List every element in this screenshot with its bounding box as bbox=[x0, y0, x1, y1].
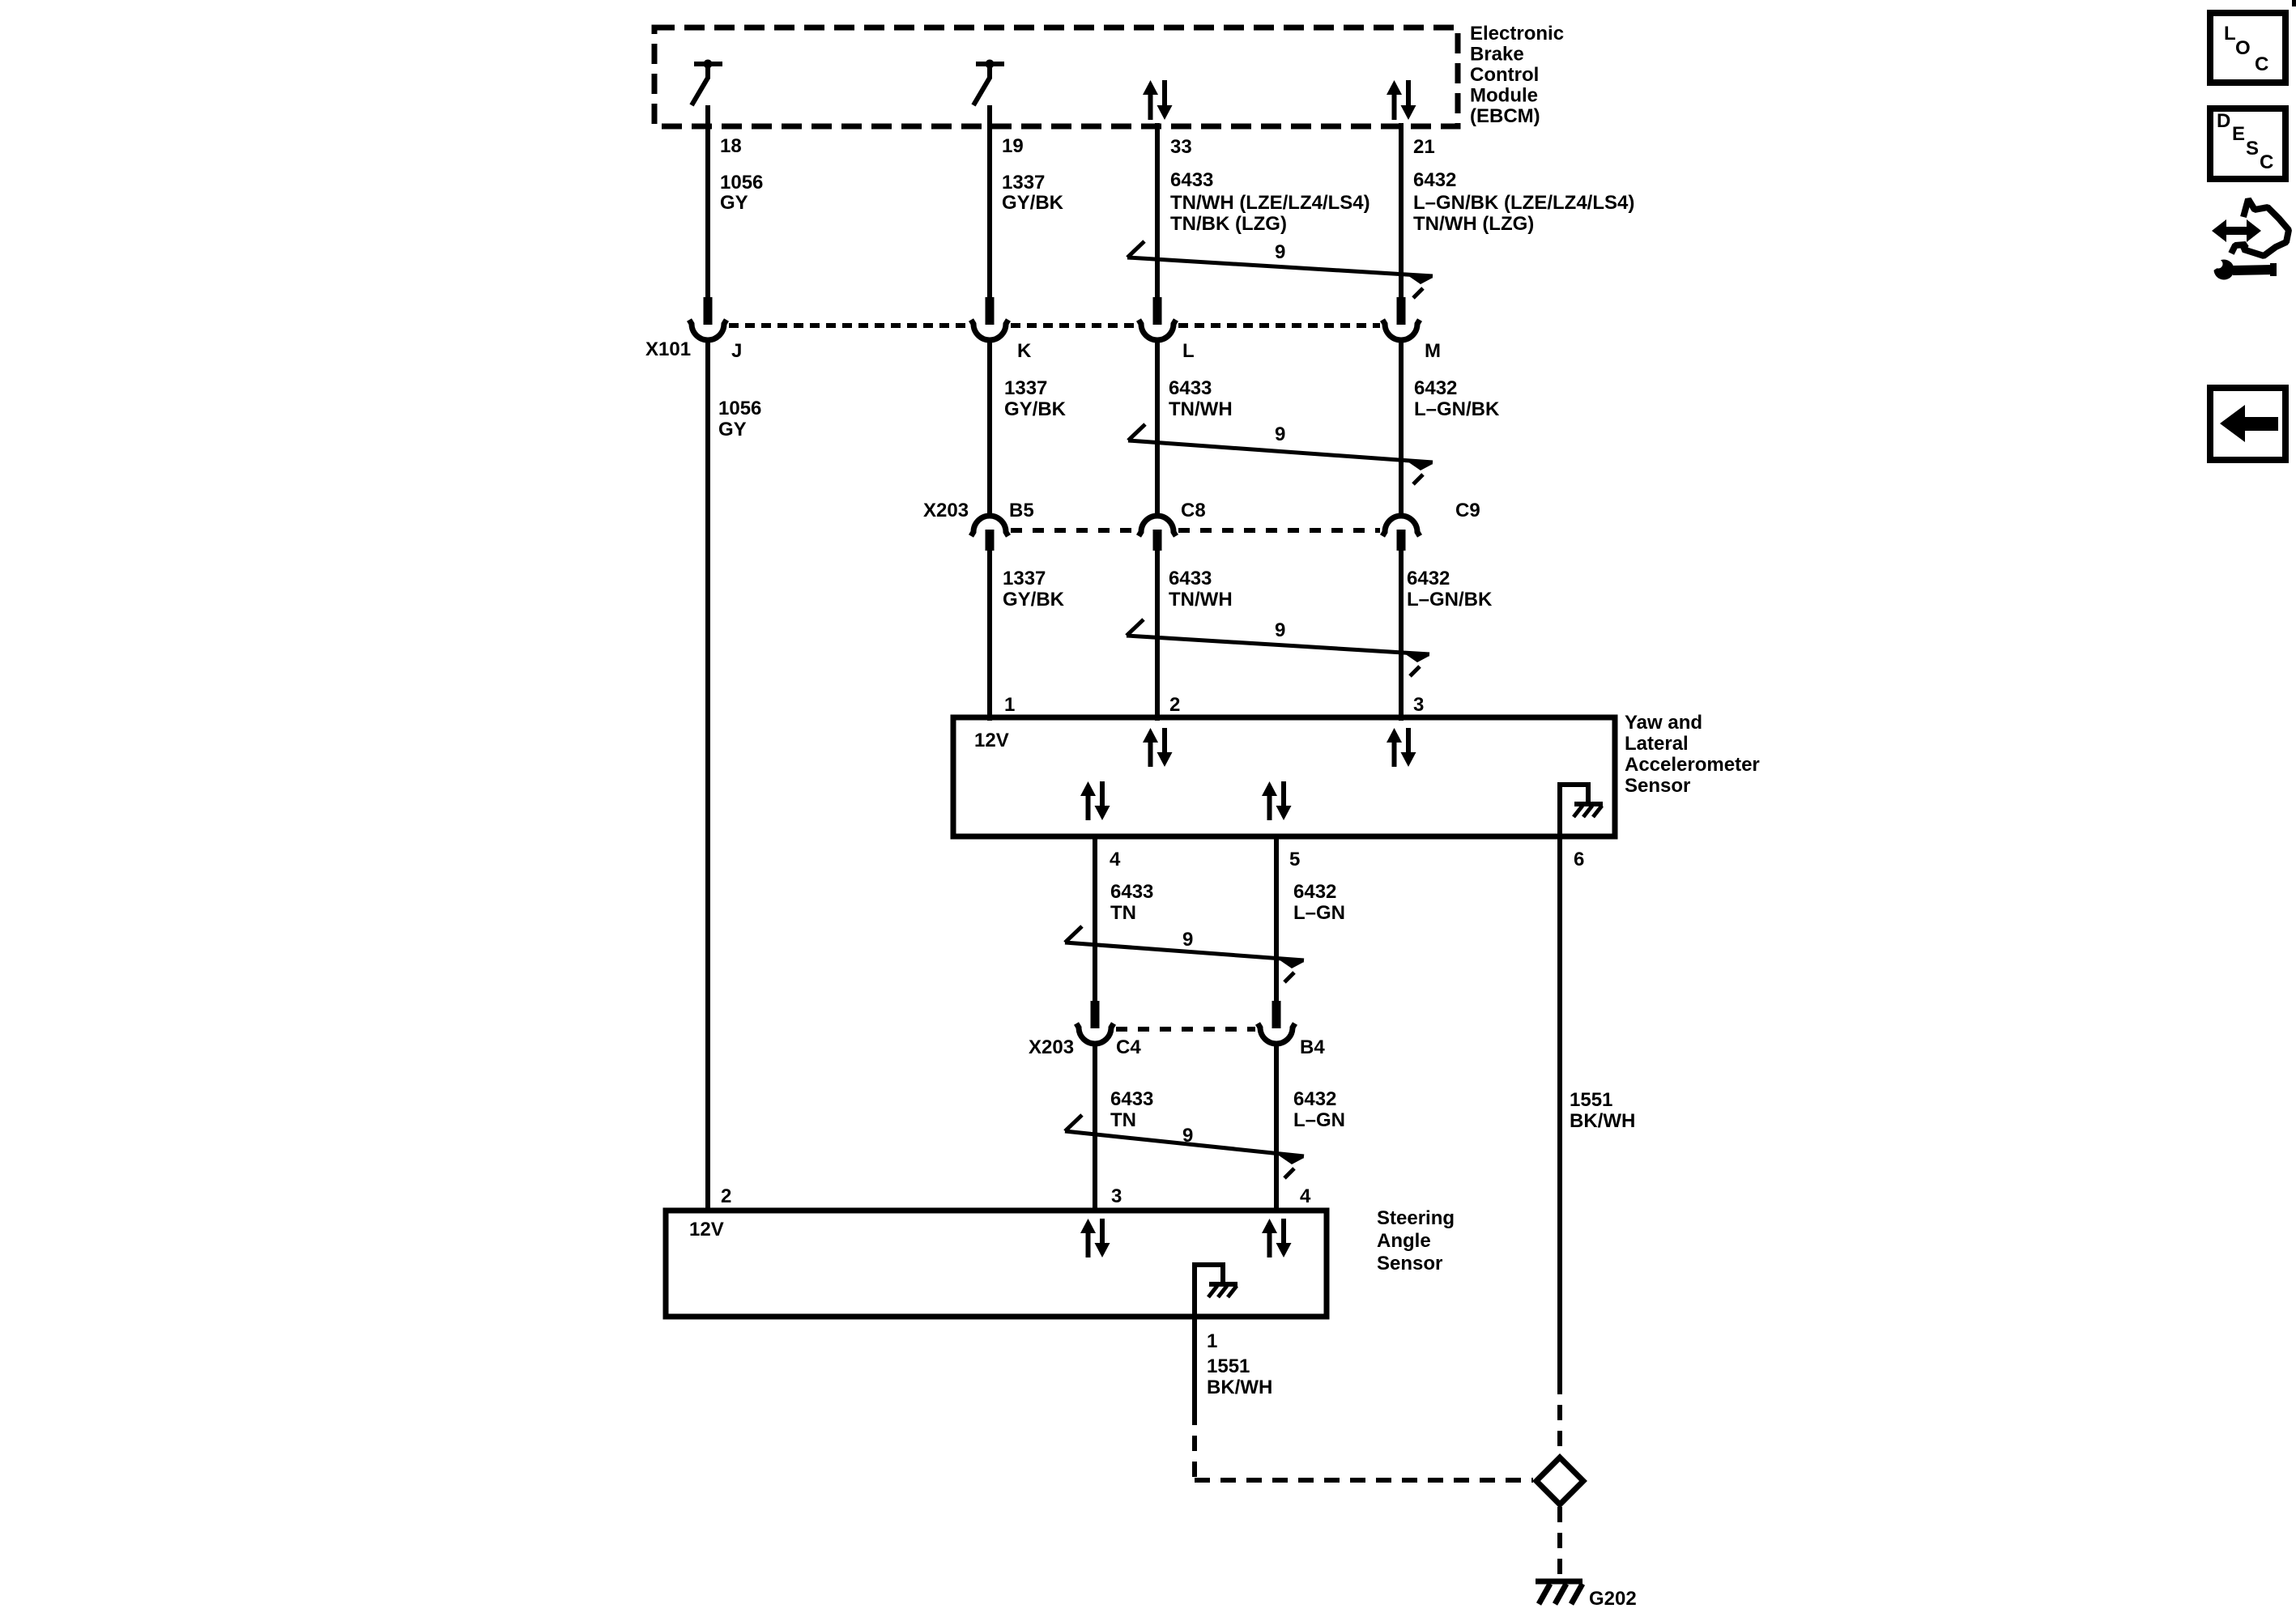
svg-text:TN/WH: TN/WH bbox=[1169, 589, 1233, 611]
wire dashed to G202 bbox=[1557, 1507, 1562, 1577]
svg-text:6433: 6433 bbox=[1110, 881, 1153, 903]
wire 1056 GY label bbox=[720, 172, 763, 214]
wire 1551 BK/WH label (bottom) bbox=[1207, 1355, 1272, 1398]
wire M to X203-C9 bbox=[1399, 340, 1404, 516]
yaw arrows (pin 2) bbox=[1143, 728, 1173, 767]
svg-text:9: 9 bbox=[1275, 241, 1285, 263]
wire B5 to yaw sensor pin1 bbox=[987, 551, 992, 721]
twisted pair symbol 9 (fifth) bbox=[1065, 1115, 1304, 1178]
yaw arrows (pin 4) bbox=[1080, 781, 1110, 820]
wire 1551 dashed segment to splice bbox=[1557, 1379, 1562, 1455]
svg-text:Module: Module bbox=[1470, 85, 1538, 107]
wire yaw pin6 (1551 BK/WH) bbox=[1557, 836, 1562, 1379]
connector X101 terminal J bbox=[689, 297, 726, 340]
svg-text:6433: 6433 bbox=[1169, 568, 1212, 589]
svg-text:TN/WH (LZE/LZ4/LS4): TN/WH (LZE/LZ4/LS4) bbox=[1170, 192, 1370, 214]
svg-text:1337: 1337 bbox=[1002, 172, 1045, 194]
svg-text:9: 9 bbox=[1275, 619, 1285, 641]
svg-text:GY/BK: GY/BK bbox=[1002, 192, 1064, 214]
svg-text:TN: TN bbox=[1110, 902, 1136, 924]
steering internal ground (pin 1) bbox=[1192, 1262, 1237, 1314]
svg-text:BK/WH: BK/WH bbox=[1207, 1377, 1272, 1398]
svg-text:Lateral: Lateral bbox=[1625, 733, 1689, 755]
wire C8 to yaw sensor pin2 bbox=[1155, 551, 1160, 721]
svg-text:B4: B4 bbox=[1300, 1036, 1325, 1058]
svg-text:4: 4 bbox=[1110, 849, 1121, 870]
svg-text:Yaw and: Yaw and bbox=[1625, 712, 1702, 734]
splice (diamond) bbox=[1536, 1457, 1583, 1504]
connector X203 terminal C9 bbox=[1382, 516, 1420, 551]
svg-text:C: C bbox=[2255, 53, 2268, 75]
svg-text:1: 1 bbox=[1207, 1330, 1217, 1352]
switch inside EBCM (pin 18) bbox=[692, 60, 722, 106]
EBCM serial data arrows (pin 33) bbox=[1143, 80, 1173, 120]
switch inside EBCM (pin 19) bbox=[973, 60, 1004, 106]
twisted pair symbol 9 (top) bbox=[1127, 241, 1433, 298]
svg-text:Sensor: Sensor bbox=[1377, 1253, 1442, 1274]
svg-text:(EBCM): (EBCM) bbox=[1470, 105, 1540, 127]
wire 6432 label bbox=[1413, 169, 1634, 235]
wire pin19 to X101-K bbox=[987, 105, 992, 298]
svg-text:X101: X101 bbox=[645, 338, 691, 360]
svg-text:B5: B5 bbox=[1009, 500, 1034, 521]
svg-text:GY: GY bbox=[720, 192, 748, 214]
svg-text:E: E bbox=[2232, 123, 2245, 145]
svg-text:K: K bbox=[1017, 340, 1032, 362]
connector X101 terminal M bbox=[1382, 297, 1420, 340]
wire 6433 TN/WH label (below X101) bbox=[1169, 377, 1233, 420]
connector X101 terminal K bbox=[971, 297, 1008, 340]
wire 6433 TN/WH label (below X203) bbox=[1169, 568, 1233, 611]
svg-text:Electronic: Electronic bbox=[1470, 23, 1564, 45]
wire K to X203-B5 bbox=[987, 340, 992, 516]
wire pin33 to X101-L bbox=[1155, 123, 1160, 298]
svg-text:2: 2 bbox=[1169, 694, 1180, 716]
EBCM module dashed box bbox=[654, 28, 1458, 126]
svg-text:6433: 6433 bbox=[1110, 1088, 1153, 1110]
svg-text:6432: 6432 bbox=[1414, 377, 1457, 399]
svg-text:L–GN/BK (LZE/LZ4/LS4): L–GN/BK (LZE/LZ4/LS4) bbox=[1413, 192, 1634, 214]
svg-text:C8: C8 bbox=[1181, 500, 1206, 521]
svg-text:Sensor: Sensor bbox=[1625, 775, 1690, 797]
connector X101 terminal L bbox=[1139, 297, 1176, 340]
svg-text:9: 9 bbox=[1182, 929, 1193, 951]
svg-text:6432: 6432 bbox=[1413, 169, 1456, 191]
connector X203 terminal B5 bbox=[971, 516, 1008, 551]
svg-text:6432: 6432 bbox=[1293, 1088, 1336, 1110]
connector X101 dashed line bbox=[729, 323, 969, 328]
connector X203 terminal C8 bbox=[1139, 516, 1176, 551]
svg-text:6433: 6433 bbox=[1170, 169, 1213, 191]
svg-text:BK/WH: BK/WH bbox=[1570, 1110, 1635, 1132]
svg-text:1551: 1551 bbox=[1570, 1089, 1612, 1111]
wire 6433 TN label bbox=[1110, 881, 1153, 924]
svg-text:L: L bbox=[1182, 340, 1195, 362]
connector X203 terminal B4 bbox=[1258, 1001, 1295, 1044]
svg-text:6: 6 bbox=[1574, 849, 1584, 870]
DESC icon box bbox=[2210, 109, 2285, 179]
svg-text:S: S bbox=[2246, 138, 2259, 160]
svg-text:C9: C9 bbox=[1455, 500, 1480, 521]
svg-text:1337: 1337 bbox=[1003, 568, 1046, 589]
svg-text:6432: 6432 bbox=[1293, 881, 1336, 903]
wire 6433 TN label (below X203) bbox=[1110, 1088, 1153, 1131]
connector X203 terminal C4 bbox=[1076, 1001, 1114, 1044]
svg-text:D: D bbox=[2217, 110, 2230, 132]
wire 1056 GY label (below X101) bbox=[718, 398, 761, 440]
svg-text:GY/BK: GY/BK bbox=[1004, 398, 1067, 420]
wire L to X203-C8 bbox=[1155, 340, 1160, 516]
svg-text:Control: Control bbox=[1470, 64, 1539, 86]
svg-text:L–GN/BK: L–GN/BK bbox=[1407, 589, 1493, 611]
svg-text:Brake: Brake bbox=[1470, 44, 1524, 66]
steering arrows (pin 3) bbox=[1080, 1219, 1110, 1257]
svg-text:GY/BK: GY/BK bbox=[1003, 589, 1065, 611]
wire steering pin1 solid segment bbox=[1192, 1317, 1197, 1410]
Steering Angle Sensor box bbox=[666, 1211, 1327, 1317]
svg-text:12V: 12V bbox=[974, 730, 1009, 751]
svg-text:L: L bbox=[2224, 23, 2236, 45]
svg-text:TN: TN bbox=[1110, 1109, 1136, 1131]
wire C9 to yaw sensor pin3 bbox=[1399, 551, 1404, 721]
svg-text:21: 21 bbox=[1413, 136, 1435, 158]
clipped page mark (top-right corner) bbox=[2292, 0, 2296, 6]
svg-text:9: 9 bbox=[1182, 1125, 1193, 1147]
svg-text:18: 18 bbox=[720, 135, 742, 157]
svg-text:X203: X203 bbox=[923, 500, 969, 521]
wire 6432 L-GN/BK label (below X101) bbox=[1414, 377, 1500, 420]
EBCM label bbox=[1470, 23, 1564, 127]
svg-text:1337: 1337 bbox=[1004, 377, 1047, 399]
wire 1337 GY/BK label (below X203) bbox=[1003, 568, 1065, 611]
svg-text:M: M bbox=[1425, 340, 1441, 362]
wire yaw pin4 to X203-C4 bbox=[1093, 836, 1097, 1002]
svg-text:TN/WH: TN/WH bbox=[1169, 398, 1233, 420]
svg-text:4: 4 bbox=[1300, 1185, 1311, 1207]
svg-text:L–GN: L–GN bbox=[1293, 1109, 1345, 1131]
svg-text:33: 33 bbox=[1170, 136, 1192, 158]
svg-text:Accelerometer: Accelerometer bbox=[1625, 754, 1760, 776]
yaw sensor internal ground (pin 6) bbox=[1557, 782, 1603, 834]
yaw arrows (pin 3) bbox=[1387, 728, 1416, 767]
wire pin18 to X101-J bbox=[705, 105, 710, 298]
svg-text:L–GN/BK: L–GN/BK bbox=[1414, 398, 1500, 420]
EBCM serial data arrows (pin 21) bbox=[1387, 80, 1416, 120]
svg-text:19: 19 bbox=[1002, 135, 1024, 157]
wire 6432 L-GN/BK label (below X203) bbox=[1407, 568, 1493, 611]
svg-text:Angle: Angle bbox=[1377, 1230, 1431, 1252]
svg-text:J: J bbox=[731, 340, 742, 362]
svg-text:3: 3 bbox=[1413, 694, 1424, 716]
steering arrows (pin 4) bbox=[1262, 1219, 1292, 1257]
wire 6432 L-GN label bbox=[1293, 881, 1345, 924]
svg-text:6433: 6433 bbox=[1169, 377, 1212, 399]
svg-text:3: 3 bbox=[1111, 1185, 1122, 1207]
wire dashed horizontal to splice bbox=[1195, 1478, 1533, 1483]
wire 1337 GY/BK label bbox=[1002, 172, 1064, 214]
svg-text:C: C bbox=[2260, 151, 2273, 173]
ground G202 bbox=[1536, 1581, 1582, 1604]
yaw sensor name label bbox=[1625, 712, 1760, 797]
svg-text:9: 9 bbox=[1275, 423, 1285, 445]
svg-text:L–GN: L–GN bbox=[1293, 902, 1345, 924]
connector X203 dashed line (B5/C8/C9) bbox=[1011, 528, 1136, 533]
svg-text:Steering: Steering bbox=[1377, 1207, 1455, 1229]
svg-text:6432: 6432 bbox=[1407, 568, 1450, 589]
diagnostic car icon bbox=[2209, 199, 2289, 280]
wire 6433 label bbox=[1170, 169, 1370, 235]
wire steering pin1 dashed segment bbox=[1192, 1410, 1197, 1480]
svg-text:2: 2 bbox=[721, 1185, 731, 1207]
wire 6432 L-GN label (below X203) bbox=[1293, 1088, 1345, 1131]
wire 1551 BK/WH label (right) bbox=[1570, 1089, 1635, 1132]
wire 1337 GY/BK label (below X101) bbox=[1004, 377, 1067, 420]
twisted pair symbol 9 (fourth) bbox=[1065, 926, 1304, 982]
Yaw and Lateral Accelerometer Sensor box bbox=[953, 717, 1615, 836]
steering sensor name label bbox=[1377, 1207, 1455, 1274]
svg-text:O: O bbox=[2235, 37, 2251, 59]
wire J down to steering angle sensor pin2 bbox=[705, 340, 710, 1211]
twisted pair symbol 9 (third) bbox=[1127, 619, 1429, 676]
svg-text:5: 5 bbox=[1289, 849, 1300, 870]
wire B4 to steering sensor pin4 bbox=[1274, 1044, 1279, 1211]
wire C4 to steering sensor pin3 bbox=[1093, 1044, 1097, 1211]
connector X203 dashed line (C4/B4) bbox=[1116, 1027, 1255, 1032]
twisted pair symbol 9 (second) bbox=[1128, 424, 1433, 484]
svg-text:1056: 1056 bbox=[718, 398, 761, 419]
LOC icon box bbox=[2210, 13, 2285, 83]
wire yaw pin5 to X203-B4 bbox=[1274, 836, 1279, 1002]
svg-text:G202: G202 bbox=[1589, 1588, 1637, 1610]
svg-text:GY: GY bbox=[718, 419, 747, 440]
svg-text:C4: C4 bbox=[1116, 1036, 1141, 1058]
back arrow icon box bbox=[2210, 388, 2285, 460]
svg-text:12V: 12V bbox=[689, 1219, 724, 1240]
svg-text:X203: X203 bbox=[1029, 1036, 1074, 1058]
svg-text:TN/BK (LZG): TN/BK (LZG) bbox=[1170, 213, 1287, 235]
svg-text:TN/WH (LZG): TN/WH (LZG) bbox=[1413, 213, 1534, 235]
yaw arrows (pin 5) bbox=[1262, 781, 1292, 820]
svg-text:1: 1 bbox=[1004, 694, 1015, 716]
svg-text:1551: 1551 bbox=[1207, 1355, 1250, 1377]
wire pin21 to X101-M bbox=[1399, 123, 1404, 298]
svg-text:1056: 1056 bbox=[720, 172, 763, 194]
